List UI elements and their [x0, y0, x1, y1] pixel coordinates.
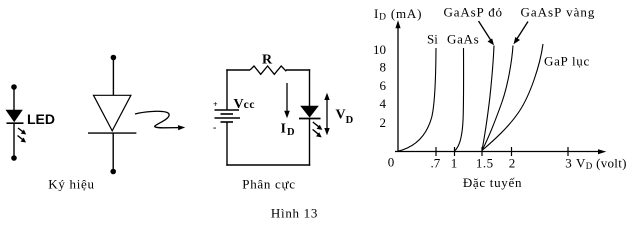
svg-text:6: 6: [380, 78, 387, 93]
LED in circuit: cathode bar: [299, 118, 321, 120]
svg-text:2: 2: [380, 115, 387, 130]
LED in circuit: light emission arrow 1: [313, 122, 323, 130]
LED symbol (left): anode terminal node dot: [11, 84, 17, 90]
LED in circuit: filled triangle: [300, 106, 319, 118]
squiggle arrow pointing to bias circuit: [135, 111, 185, 130]
LED in circuit: light emission arrow 2: [313, 129, 322, 137]
wire: diode anode lead: [112, 58, 114, 96]
pointer arrow from GaAsP vang label to curve: [514, 22, 529, 45]
svg-text:0: 0: [388, 155, 395, 170]
svg-text:GaAsP đỏ: GaAsP đỏ: [444, 5, 503, 20]
wire: left wire lower (battery to bottom): [226, 122, 228, 166]
battery Vcc: plate 4 (short, -): [221, 121, 234, 123]
x tick 1: [454, 147, 456, 156]
pointer arrow from GaAsP do label to curve: [479, 21, 495, 45]
svg-text:3: 3: [565, 156, 572, 171]
wire: right wire upper (to LED): [309, 69, 311, 106]
graph y-axis ID: [395, 20, 400, 152]
wire: LED symbol anode lead: [13, 87, 15, 111]
svg-text:1: 1: [451, 156, 458, 171]
x tick 2: [511, 147, 513, 156]
diode D: open triangle: [94, 95, 131, 131]
svg-text:GaP lục: GaP lục: [544, 54, 590, 69]
battery Vcc: plate 1 (long, +): [215, 109, 240, 111]
curve GaAsP do (red): [482, 46, 494, 151]
battery Vcc: plate 3 (long): [215, 117, 241, 119]
svg-text:Hình 13: Hình 13: [271, 206, 318, 221]
curve GaAs: [455, 48, 464, 151]
svg-text:10: 10: [373, 42, 386, 57]
svg-text:Phân cực: Phân cực: [242, 177, 295, 192]
graph x-axis VD: [395, 149, 606, 154]
svg-text:Đặc tuyến: Đặc tuyến: [463, 175, 522, 190]
diode D: bottom terminal node dot: [110, 169, 116, 175]
svg-text:+: +: [213, 100, 218, 109]
voltage VD double arrow: [324, 93, 329, 135]
x tick 3: [567, 147, 569, 156]
svg-text:4: 4: [380, 96, 387, 111]
bias circuit: top wire left segment: [226, 69, 250, 71]
svg-text:Si: Si: [427, 32, 438, 47]
curve Si: [398, 48, 437, 151]
svg-text:VD (volt): VD (volt): [576, 156, 627, 172]
LED symbol: light emission arrow 2: [18, 136, 27, 143]
current ID arrow: [284, 83, 290, 118]
svg-text:LED: LED: [27, 111, 55, 127]
svg-text:Vcc: Vcc: [234, 97, 256, 112]
wire: diode cathode lead: [112, 133, 114, 171]
svg-text:1.5: 1.5: [476, 156, 494, 171]
svg-text:GaAs: GaAs: [447, 32, 479, 47]
wire: right wire lower: [309, 119, 311, 166]
wire: left wire upper (to battery): [226, 69, 228, 110]
wire: bottom wire: [226, 164, 310, 166]
svg-text:8: 8: [380, 60, 387, 75]
curve GaAsP vang (yellow): [482, 46, 513, 151]
svg-text:Ký hiệu: Ký hiệu: [48, 177, 94, 192]
svg-text:.7: .7: [431, 156, 441, 171]
x tick 0.7: [435, 147, 437, 156]
diode D: cathode bar: [88, 132, 136, 134]
curve GaP luc (green): [482, 44, 543, 151]
svg-text:GaAsP vàng: GaAsP vàng: [521, 5, 596, 20]
LED symbol: diode triangle (filled): [6, 110, 23, 123]
LED symbol: light emission arrow 1: [18, 128, 26, 135]
wire: top wire right segment: [286, 69, 310, 71]
LED symbol: cathode terminal node dot: [11, 155, 17, 161]
x tick 1.5: [481, 147, 483, 156]
svg-text:-: -: [213, 123, 216, 134]
wire: LED symbol cathode lead: [13, 123, 15, 158]
svg-text:2: 2: [509, 156, 516, 171]
svg-text:R: R: [262, 53, 273, 68]
resistor R zigzag: [250, 66, 287, 74]
diode D (middle symbol): top terminal node dot: [111, 55, 117, 61]
battery Vcc: plate 2 (short): [221, 113, 234, 115]
LED symbol: cathode bar: [7, 122, 24, 124]
